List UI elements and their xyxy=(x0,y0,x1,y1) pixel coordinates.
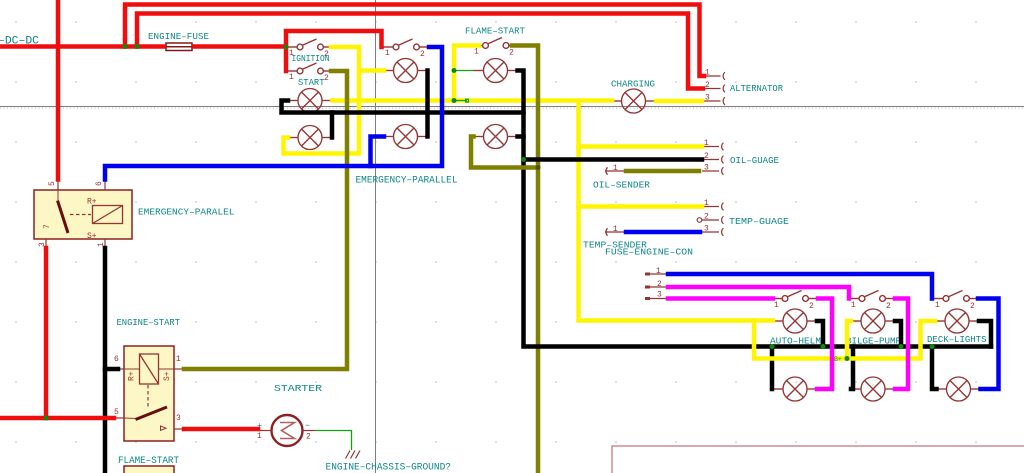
wire FLAME-START pin1 riser xyxy=(454,46,479,101)
green default wires xyxy=(315,71,474,451)
svg-text:2: 2 xyxy=(704,213,709,222)
junction at DC bus x137 xyxy=(135,44,140,49)
svg-text:STARTER: STARTER xyxy=(274,384,323,394)
junction FLAME-START lamp feed xyxy=(452,68,457,73)
svg-text:ENGINE–START: ENGINE–START xyxy=(117,318,181,328)
svg-text:1: 1 xyxy=(704,199,709,208)
svg-text:1: 1 xyxy=(613,225,618,234)
svg-text:IGNITION: IGNITION xyxy=(292,54,330,64)
lamp BILGE top xyxy=(851,309,895,333)
junction ENGINE-START pin5 feed xyxy=(44,416,49,421)
svg-text:3: 3 xyxy=(176,414,181,423)
wire FUSE-ENGINE-CON pin1 to DECK switch xyxy=(668,274,932,299)
lamp L3 (col2 top) xyxy=(384,59,428,83)
junction at IGNITION feed xyxy=(284,45,289,50)
yellow late (drawn over black bus) xyxy=(754,321,935,359)
blue wires xyxy=(105,47,999,389)
wire col1 bottom lamp right riser xyxy=(330,113,335,138)
svg-text:EMERGENCY–PARALEL: EMERGENCY–PARALEL xyxy=(138,208,235,218)
wire col3 bottom lamp to olive net xyxy=(471,137,538,168)
magenta wires xyxy=(668,287,908,389)
ground ENGINE-CHASSIS-GROUND xyxy=(346,451,361,459)
svg-text:S+: S+ xyxy=(87,232,97,241)
wire to col3 top lamp xyxy=(454,70,474,72)
wire ignition feed xyxy=(286,31,382,71)
wire START pin2 to ENGINE-START relay pin1 xyxy=(184,71,347,369)
sheet outline bottom-right xyxy=(612,446,1024,473)
svg-text:R+: R+ xyxy=(87,198,97,207)
junction ground bus x932 xyxy=(930,344,935,349)
motor STARTER xyxy=(257,415,315,446)
svg-text:2: 2 xyxy=(705,81,710,90)
switch DECK-LIGHTS xyxy=(933,291,979,302)
svg-text:7: 7 xyxy=(43,224,52,229)
svg-text:CHARGING: CHARGING xyxy=(611,80,655,90)
svg-text:FLAME–START: FLAME–START xyxy=(465,27,526,37)
wire col3 bottom lamp stub xyxy=(518,134,524,139)
svg-text:6: 6 xyxy=(95,181,104,186)
svg-text:B+: B+ xyxy=(834,356,842,363)
svg-text:1: 1 xyxy=(774,301,779,310)
svg-text:DECK–LIGHTS: DECK–LIGHTS xyxy=(927,335,987,345)
svg-text:EMERGENCY–PARALLEL: EMERGENCY–PARALLEL xyxy=(356,175,458,187)
junction at DC bus x125 xyxy=(123,44,128,49)
svg-text:1: 1 xyxy=(474,48,479,57)
wire col1 top lamp elbow + bus y112.5 xyxy=(282,101,524,113)
wire DECK switch pin2 down to bottom lamp xyxy=(978,299,999,390)
svg-text:3: 3 xyxy=(705,94,710,103)
sheet divider horizontal xyxy=(0,106,1024,108)
svg-text:TEMP–GUAGE: TEMP–GUAGE xyxy=(729,217,789,227)
junction ground bus x772 xyxy=(770,344,775,349)
olive wires xyxy=(184,46,699,473)
svg-text:FLAME–START: FLAME–START xyxy=(118,456,179,467)
connector TEMP-GUAGE xyxy=(697,199,789,236)
wire gauge feed vertical x578 xyxy=(579,101,774,321)
junction ground bus x823 xyxy=(821,344,826,349)
svg-text:OIL–SENDER: OIL–SENDER xyxy=(593,181,651,191)
lamp L5 (col3 top) xyxy=(474,59,518,83)
yellow wires xyxy=(284,46,774,321)
wire riser x137 to second rail xyxy=(137,14,703,89)
switch U3 (middle column) xyxy=(383,39,429,50)
wire STARTER minus to chassis ground xyxy=(315,431,352,451)
sheet divider vertical xyxy=(375,0,377,473)
switch BILGE-PUMP xyxy=(849,291,895,302)
black wires xyxy=(105,71,991,473)
lamp AUTO-HELM top xyxy=(773,309,817,333)
wire battery vertical x58 xyxy=(56,0,61,180)
svg-text:1: 1 xyxy=(257,432,262,441)
wire DECK bottom lamp from bus xyxy=(932,347,937,390)
svg-text:1: 1 xyxy=(851,301,856,310)
svg-text:−: − xyxy=(305,421,310,431)
lamp L6 (col3 bottom) xyxy=(474,125,518,149)
wire TEMP-SENDER to TEMP-GUAGE pin3 xyxy=(626,230,700,235)
svg-text:3: 3 xyxy=(704,225,709,234)
wire OIL-GUAGE pin1 xyxy=(579,144,703,149)
lamp L2 (col1 bottom) xyxy=(288,126,332,150)
junction FLAME-START at yellow bus xyxy=(452,98,457,103)
svg-text:1: 1 xyxy=(289,73,294,82)
svg-text:S+: S+ xyxy=(163,371,172,381)
lamp CHARGING xyxy=(612,89,656,113)
wire main DC bus y46.5 left of fuse xyxy=(0,44,164,49)
svg-text:OIL–GUAGE: OIL–GUAGE xyxy=(730,156,779,166)
junction B+ rail xyxy=(845,356,850,361)
lamp BILGE bottom xyxy=(851,377,895,401)
svg-text:FUSE–ENGINE–CON: FUSE–ENGINE–CON xyxy=(605,248,693,258)
svg-text:3: 3 xyxy=(704,164,709,173)
relay EMERGENCY-PARALEL xyxy=(34,180,132,249)
olive late (over black) xyxy=(471,137,538,168)
wire OIL-GUAGE pin2 xyxy=(524,157,703,162)
svg-text:2: 2 xyxy=(509,49,514,58)
wire dangling at yellow bus xyxy=(454,100,467,102)
wire col2 lamps right vertical xyxy=(425,71,430,137)
svg-text:R+: R+ xyxy=(128,371,137,381)
svg-text:2: 2 xyxy=(420,50,425,59)
svg-text:6: 6 xyxy=(114,355,119,364)
svg-text:2: 2 xyxy=(809,302,814,311)
wire IGNITION pin2 down to col1 bottom lamp xyxy=(284,47,360,154)
svg-text:ENGINE–CHASSIS–GROUND?: ENGINE–CHASSIS–GROUND? xyxy=(326,462,452,473)
connector FUSE-ENGINE-CON xyxy=(645,274,668,299)
junction ground bus x901 xyxy=(899,344,904,349)
wire DECK top lamp to bus xyxy=(979,321,991,347)
wire FLAME-START pin2 down (cut at bottom) xyxy=(512,46,538,473)
lamp L4 (col2 bottom) xyxy=(384,125,428,149)
svg-text:2: 2 xyxy=(657,280,662,289)
wire TEMP-GUAGE pin1 xyxy=(579,204,703,209)
wire col2 switch pin2 down to emergency-parallel net xyxy=(105,47,442,180)
switch IGNITION xyxy=(287,39,333,50)
wire CHARGING to ALTERNATOR pin3 xyxy=(656,99,702,104)
svg-text:1: 1 xyxy=(704,139,709,148)
wire relay pin1 down to bottom edge xyxy=(103,248,108,473)
wire col3 vertical x523.5 + bottom bus xyxy=(518,71,992,347)
wire branch to col2 top lamp xyxy=(359,68,384,73)
connector OIL-SENDER xyxy=(593,164,651,191)
junction olive net xyxy=(536,165,541,170)
wire to ENGINE-START pin5 xyxy=(0,416,114,421)
wire stub to ENGINE-START pin6 xyxy=(105,367,118,372)
svg-text:2: 2 xyxy=(886,302,891,311)
junction OIL-GUAGE pin2 tap xyxy=(521,157,526,162)
wire BILGE top lamp to bus xyxy=(895,321,901,347)
fuse ENGINE-FUSE xyxy=(166,43,192,51)
svg-text:1: 1 xyxy=(656,267,661,276)
svg-text:1: 1 xyxy=(613,164,618,173)
lamp DECK bottom xyxy=(937,377,981,401)
svg-text:5: 5 xyxy=(48,181,57,186)
connector ALTERNATOR xyxy=(704,69,784,105)
svg-text:1: 1 xyxy=(176,355,181,364)
wire FUSE-ENGINE-CON pin2 to BILGE switch xyxy=(668,287,849,299)
wire riser x125 to top rail xyxy=(125,5,704,77)
wire relay pin3 down xyxy=(44,248,49,418)
lamp L1 (START lamp) xyxy=(288,89,332,113)
wire AUTO switch pin2 down to bottom lamp xyxy=(817,299,832,390)
wire yellow bus START lamp to CHARGING xyxy=(332,98,612,103)
switch AUTO-HELM xyxy=(772,291,818,302)
wire BILGE bottom lamp from bus xyxy=(851,347,853,390)
wire BILGE switch pin2 down to bottom lamp xyxy=(895,299,908,390)
relay ENGINE-START xyxy=(114,346,184,441)
svg-text:5: 5 xyxy=(114,408,119,417)
switch FLAME-START xyxy=(473,38,519,49)
svg-text:1: 1 xyxy=(935,301,940,310)
svg-text:2: 2 xyxy=(970,302,975,311)
svg-text:1: 1 xyxy=(385,49,390,58)
svg-text:START: START xyxy=(298,78,325,88)
wire OIL-SENDER to OIL-GUAGE pin3 xyxy=(626,169,699,174)
wire FUSE-ENGINE-CON pin3 to AUTO switch xyxy=(668,296,773,301)
wire yellow riser to BILGE top lamp xyxy=(847,321,851,359)
connector TEMP-SENDER xyxy=(583,225,648,251)
wire branch to col2 bottom lamp xyxy=(371,137,385,167)
red wires xyxy=(0,0,704,429)
svg-text:2: 2 xyxy=(306,433,311,442)
svg-text:2: 2 xyxy=(324,74,329,83)
svg-text:3: 3 xyxy=(657,291,662,300)
lamp DECK top xyxy=(935,309,979,333)
svg-text:2: 2 xyxy=(704,152,709,161)
switch START xyxy=(287,63,333,74)
lamp AUTO-HELM bottom xyxy=(773,377,817,401)
wire AUTO top lamp to bus xyxy=(817,321,823,347)
wire main DC bus y46.5 right of fuse xyxy=(195,44,287,49)
svg-text:ENGINE–FUSE: ENGINE–FUSE xyxy=(148,32,209,42)
wire yellow riser x754 + lower yellow rail xyxy=(754,321,935,359)
connector OIL-GUAGE xyxy=(702,139,779,175)
wire ENGINE-START pin3 to STARTER xyxy=(184,427,258,432)
svg-text:ALTERNATOR: ALTERNATOR xyxy=(730,84,784,94)
relay FLAME-START (bottom, cut off) xyxy=(124,466,174,473)
wire AUTO bottom lamp from bus xyxy=(770,347,775,390)
